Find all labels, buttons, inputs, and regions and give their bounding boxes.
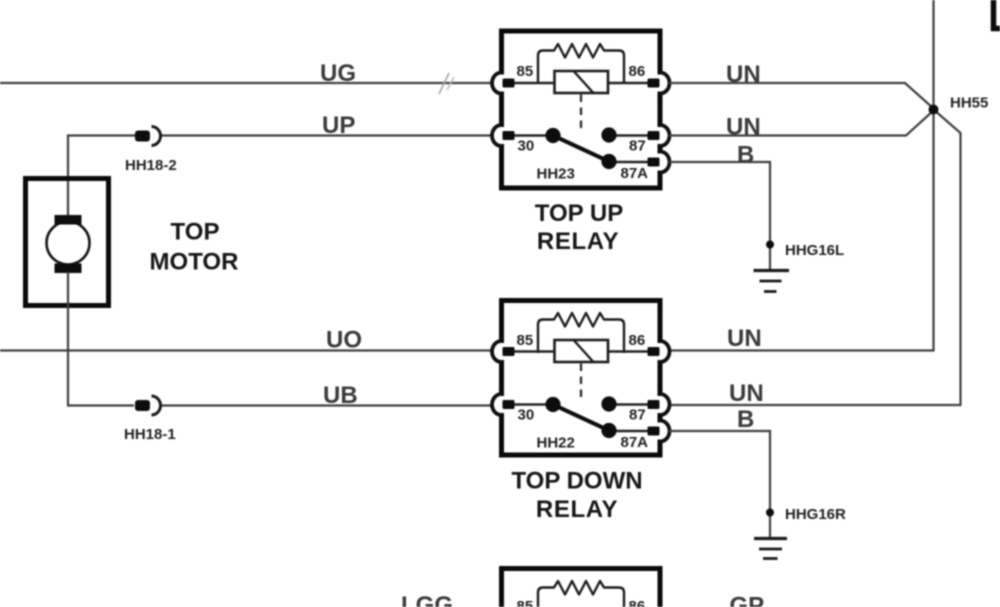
wire UN from HH55 down to HH22 pin 87	[669, 110, 961, 406]
relay HH23 wire to pin 87	[609, 134, 650, 137]
svg-text:MOTOR: MOTOR	[150, 249, 239, 276]
ground HHG16R	[754, 509, 787, 559]
relay HH22 coil	[555, 340, 609, 362]
relay HH22 terminal 87	[648, 394, 670, 415]
svg-text:86: 86	[629, 63, 646, 80]
svg-text:UP: UP	[322, 112, 355, 139]
svg-text:HH18-1: HH18-1	[124, 426, 176, 443]
relay HH22 terminal 86	[648, 341, 670, 362]
svg-text:TOP DOWN: TOP DOWN	[511, 468, 642, 495]
svg-text:B: B	[737, 406, 754, 433]
wire UP	[68, 136, 492, 218]
wire UO	[0, 349, 492, 351]
svg-text:HH22: HH22	[537, 435, 575, 452]
svg-text:UG: UG	[320, 60, 356, 87]
svg-text:UO: UO	[326, 327, 362, 354]
relay HH23 terminal 86	[648, 73, 670, 94]
svg-text:LGG: LGG	[401, 592, 453, 607]
relay (partial, bottom) box	[502, 569, 661, 607]
relay HH23 coil	[555, 71, 609, 93]
relay HH23 terminal 87	[648, 125, 670, 146]
relay HH22 terminal 30	[492, 394, 515, 415]
caption TOP UP RELAY	[535, 200, 623, 255]
motor M1	[47, 215, 90, 273]
relay HH23 box	[502, 31, 661, 188]
relay HH22 switch arm	[553, 405, 609, 431]
svg-text:87: 87	[629, 407, 646, 424]
svg-text:GP: GP	[730, 593, 765, 607]
relay HH23 terminal 85	[492, 73, 515, 94]
relay HH22 box	[502, 301, 661, 456]
relay HH23 contact 87	[601, 127, 616, 142]
relay HH23 wire to pin 30	[510, 134, 553, 137]
relay HH23 wire to pin 86	[608, 82, 650, 85]
relay HH23 coil-armature dashed link	[580, 95, 582, 129]
wire B from HH22 pin 87A to ground HHG16R	[669, 431, 770, 537]
relay HH23 contact 30	[545, 128, 560, 143]
adjacent relay box corner (top right)	[994, 0, 1000, 29]
relay HH23 switch arm	[553, 136, 609, 162]
svg-text:RELAY: RELAY	[536, 496, 618, 523]
relay HH22 wire to pin 87	[609, 403, 650, 406]
svg-text:RELAY: RELAY	[537, 228, 619, 255]
svg-text:HH18-2: HH18-2	[125, 157, 177, 174]
svg-text:UN: UN	[726, 114, 761, 141]
svg-text:85: 85	[517, 332, 534, 349]
relay HH22 resistor	[538, 313, 624, 353]
svg-text:86: 86	[629, 598, 646, 607]
relay HH22 contact 87A	[601, 423, 616, 438]
caption TOP DOWN RELAY	[511, 468, 642, 524]
wire UG	[0, 82, 492, 84]
relay HH23 resistor	[538, 44, 624, 84]
relay HH22 contact 87	[601, 396, 616, 411]
svg-text:UN: UN	[727, 325, 762, 352]
splice mark on wire UG	[439, 73, 454, 94]
svg-text:HHG16L: HHG16L	[785, 242, 844, 259]
svg-text:HH23: HH23	[537, 166, 575, 183]
svg-text:TOP UP: TOP UP	[535, 200, 623, 227]
relay HH22 wire to pin 86	[608, 350, 650, 353]
svg-text:85: 85	[517, 598, 534, 607]
relay HH23 wire to pin 85	[510, 82, 554, 85]
wire UN from HH23 pin 86 to HH55	[669, 83, 934, 109]
relay HH22 coil-armature dashed link	[580, 364, 582, 398]
relay (partial) resistor	[538, 581, 624, 607]
svg-text:86: 86	[629, 332, 646, 349]
bus wire through HH55 down to HH22 pin 86	[669, 0, 934, 351]
svg-text:UB: UB	[323, 382, 358, 409]
splice HH55	[929, 105, 939, 115]
relay HH22 wire to pin 87A	[609, 430, 650, 433]
svg-text:87A: 87A	[621, 165, 649, 182]
svg-text:30: 30	[518, 407, 535, 424]
relay HH22 wire to pin 85	[510, 350, 554, 353]
svg-text:85: 85	[517, 63, 534, 80]
top motor box	[26, 179, 109, 306]
svg-text:HH55: HH55	[950, 95, 988, 112]
relay HH22 contact 30	[545, 397, 560, 412]
relay HH22 wire to pin 30	[510, 403, 553, 406]
svg-text:87A: 87A	[621, 434, 649, 451]
svg-text:87: 87	[629, 138, 646, 155]
inline connector HH18-1	[135, 396, 161, 415]
ground HHG16L	[754, 241, 790, 292]
svg-text:HHG16R: HHG16R	[785, 506, 846, 523]
svg-text:B: B	[737, 142, 754, 169]
relay HH23 contact 87A	[601, 154, 616, 169]
wire B from HH23 pin 87A to ground HHG16L	[669, 162, 770, 269]
svg-text:30: 30	[518, 138, 535, 155]
relay HH22 terminal 87A	[648, 421, 670, 442]
wire UB	[68, 272, 492, 406]
relay HH23 wire to pin 87A	[609, 161, 650, 164]
inline connector HH18-2	[135, 127, 161, 146]
svg-text:TOP: TOP	[171, 219, 220, 246]
relay HH22 terminal 85	[492, 341, 515, 362]
svg-text:UN: UN	[729, 380, 764, 407]
wire UN from HH23 pin 87 to HH55	[669, 111, 934, 136]
relay HH23 terminal 30	[492, 125, 515, 146]
relay HH23 terminal 87A	[648, 152, 670, 173]
label TOP MOTOR	[150, 219, 239, 276]
svg-text:UN: UN	[726, 61, 761, 88]
